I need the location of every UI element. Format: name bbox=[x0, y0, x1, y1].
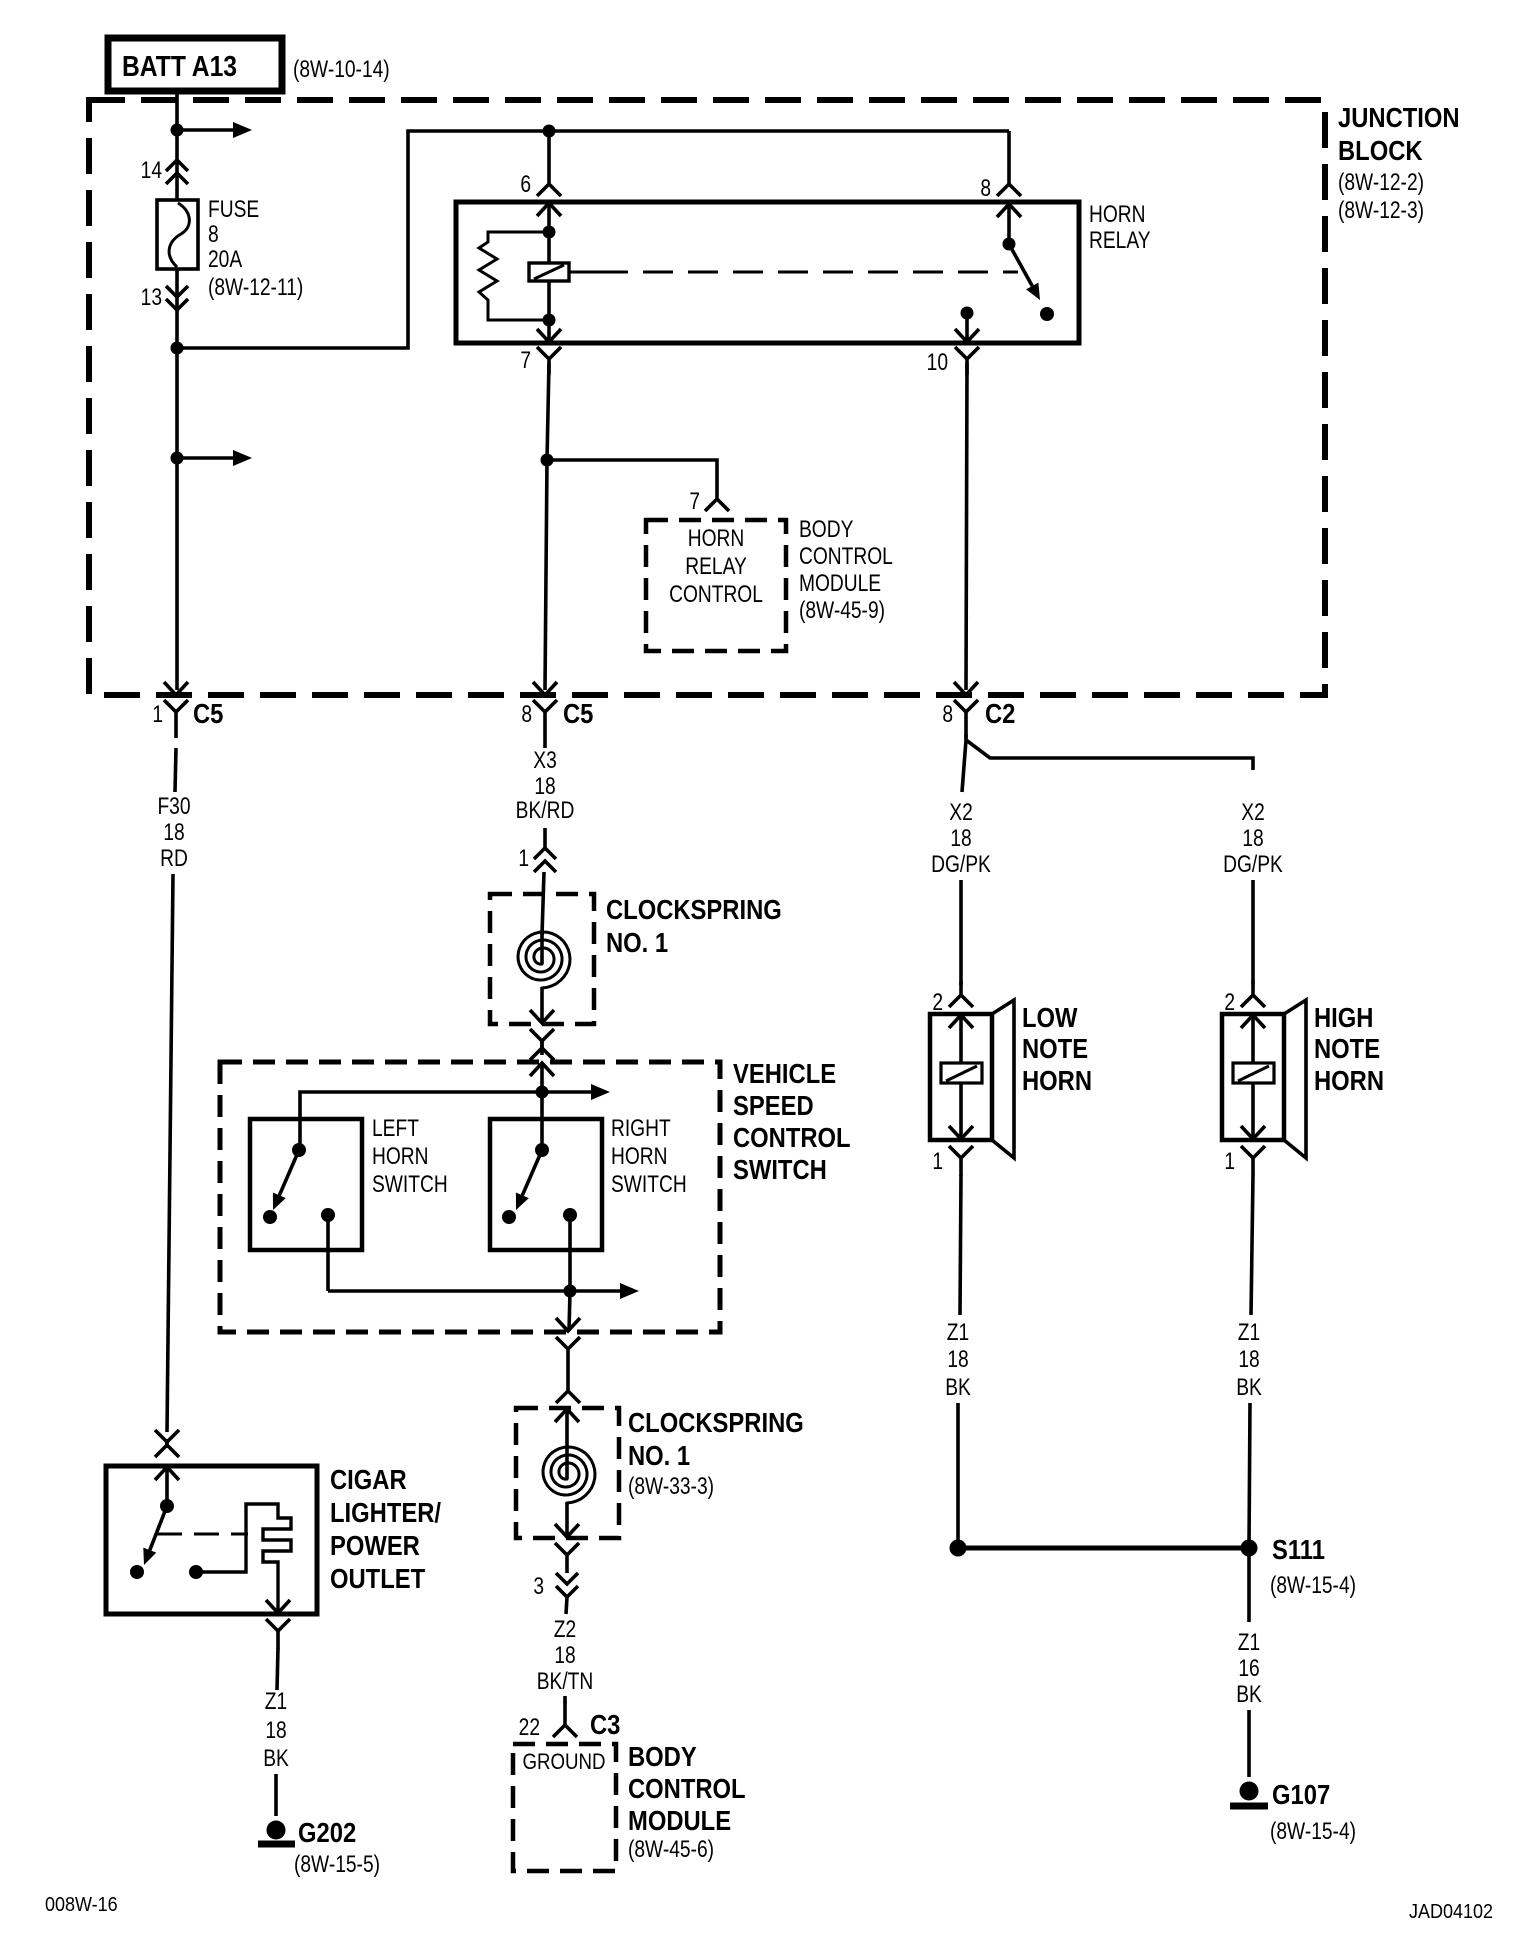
horn relay control dashed box bbox=[646, 520, 786, 651]
high note horn speaker cone bbox=[1284, 1000, 1306, 1158]
right horn switch output contact bbox=[563, 1208, 577, 1222]
wire relay pin 10 to C2 bbox=[966, 363, 967, 690]
wire batt A13 down to fuse bbox=[175, 91, 179, 200]
svg-text:(8W-45-9): (8W-45-9) bbox=[799, 596, 885, 624]
low note horn speaker cone bbox=[992, 1000, 1014, 1158]
wire low horn to pin 2 bbox=[959, 880, 963, 985]
svg-text:(8W-12-2): (8W-12-2) bbox=[1338, 168, 1424, 196]
pin 3 in-line connector bbox=[556, 1573, 578, 1597]
right horn switch box bbox=[490, 1119, 602, 1250]
svg-text:CLOCKSPRING: CLOCKSPRING bbox=[606, 893, 782, 925]
svg-text:X2: X2 bbox=[1241, 798, 1264, 826]
svg-text:VEHICLE: VEHICLE bbox=[733, 1057, 836, 1089]
svg-text:Z1: Z1 bbox=[947, 1318, 969, 1346]
relay switch blade bbox=[1009, 244, 1032, 286]
svg-text:HORN: HORN bbox=[1022, 1064, 1092, 1096]
junction block dashed border bbox=[89, 100, 1325, 695]
svg-text:DG/PK: DG/PK bbox=[931, 850, 991, 878]
battery feed box BATT A13 bbox=[108, 38, 282, 91]
connector C3 pin 22 bbox=[553, 1701, 577, 1737]
cigar internal wire bbox=[165, 1467, 169, 1506]
svg-text:X3: X3 bbox=[533, 746, 556, 774]
wire low horn to splice bbox=[956, 1403, 960, 1548]
svg-text:POWER: POWER bbox=[330, 1529, 420, 1561]
pin 7 bcm connector half bbox=[705, 477, 729, 511]
wire to G202 bbox=[274, 1774, 278, 1816]
svg-text:2: 2 bbox=[932, 988, 943, 1016]
svg-text:16: 16 bbox=[1238, 1654, 1259, 1682]
connector C5 pin 1 arrow bbox=[164, 682, 188, 695]
svg-text:BODY: BODY bbox=[799, 515, 854, 543]
svg-text:MODULE: MODULE bbox=[799, 569, 881, 597]
right horn switch blade bbox=[522, 1150, 542, 1195]
svg-text:BK/RD: BK/RD bbox=[516, 796, 575, 824]
svg-text:JAD04102: JAD04102 bbox=[1409, 1901, 1493, 1923]
svg-text:14: 14 bbox=[141, 156, 162, 184]
fuse F8 body bbox=[157, 200, 198, 269]
clockspring 2 spiral bbox=[543, 1447, 595, 1503]
clockspring 2 entry connector half bbox=[556, 1381, 580, 1403]
low horn exit arrow bbox=[949, 1126, 973, 1139]
cigar heating element bbox=[196, 1504, 291, 1613]
wire right switch output down bbox=[568, 1215, 572, 1291]
relay coil wire upper bbox=[547, 232, 551, 263]
node relay switch common bbox=[1003, 238, 1016, 251]
vsc entry arrow bbox=[530, 1063, 554, 1076]
svg-text:CONTROL: CONTROL bbox=[669, 580, 763, 608]
vsc exit arrow bbox=[556, 1318, 580, 1331]
svg-text:MODULE: MODULE bbox=[628, 1804, 731, 1836]
wire to G107 bbox=[1247, 1710, 1251, 1777]
high horn entry arrow bbox=[1241, 1015, 1265, 1028]
relay actuation dashed link bbox=[568, 271, 598, 274]
svg-text:SWITCH: SWITCH bbox=[611, 1170, 687, 1198]
wire top rail to pin 8 bbox=[1007, 131, 1011, 170]
svg-text:HORN: HORN bbox=[372, 1142, 428, 1170]
svg-text:18: 18 bbox=[554, 1641, 575, 1669]
svg-text:HORN: HORN bbox=[688, 524, 744, 552]
svg-text:BATT A13: BATT A13 bbox=[122, 50, 237, 82]
right horn switch common contact bbox=[535, 1143, 549, 1157]
svg-text:10: 10 bbox=[927, 348, 948, 376]
resistor relay bbox=[479, 232, 549, 320]
node relay coil bottom bbox=[543, 314, 556, 327]
svg-text:1: 1 bbox=[518, 844, 529, 872]
svg-text:JUNCTION: JUNCTION bbox=[1338, 101, 1460, 133]
svg-text:LEFT: LEFT bbox=[372, 1114, 419, 1142]
svg-text:(8W-12-11): (8W-12-11) bbox=[208, 273, 303, 301]
wire vsc exit bbox=[569, 1291, 570, 1331]
svg-text:18: 18 bbox=[950, 824, 971, 852]
svg-text:BK: BK bbox=[1236, 1680, 1262, 1708]
svg-text:(8W-15-4): (8W-15-4) bbox=[1270, 1571, 1356, 1599]
wire into clockspring 1 bbox=[542, 872, 544, 935]
connector C2 pin 8 arrow bbox=[954, 682, 978, 695]
svg-text:18: 18 bbox=[1242, 824, 1263, 852]
cigar lighter entry connector half bbox=[155, 1439, 179, 1457]
wire C2 to low note horn bbox=[964, 734, 968, 740]
low note horn box bbox=[930, 1014, 992, 1140]
svg-text:SPEED: SPEED bbox=[733, 1089, 814, 1121]
cigar actuation dashed link bbox=[157, 1533, 248, 1536]
svg-text:RIGHT: RIGHT bbox=[611, 1114, 671, 1142]
clockspring 2 lower connector half bbox=[555, 1543, 579, 1573]
wire F30 long run to cigar lighter bbox=[167, 874, 173, 1432]
clockspring 2 entry arrow bbox=[555, 1409, 579, 1422]
wire fuse node to relay top rail bbox=[177, 131, 1009, 348]
clockspring 1 wire to center bbox=[540, 930, 544, 964]
clockspring 2 exit wire bbox=[565, 1502, 569, 1537]
svg-text:008W-16: 008W-16 bbox=[45, 1894, 118, 1916]
svg-text:(8W-33-3): (8W-33-3) bbox=[628, 1472, 714, 1500]
clockspring 1 exit arrow bbox=[530, 1010, 554, 1023]
connector C2 pin 8 bbox=[954, 700, 978, 738]
wire high horn down bbox=[1251, 1175, 1253, 1315]
svg-text:NOTE: NOTE bbox=[1022, 1032, 1088, 1064]
cigar switch common contact bbox=[160, 1499, 174, 1513]
wire vsc main down to right switch bbox=[540, 1092, 544, 1150]
vsc exit connector half bbox=[556, 1337, 580, 1381]
svg-text:CLOCKSPRING: CLOCKSPRING bbox=[628, 1406, 804, 1438]
svg-text:FUSE: FUSE bbox=[208, 195, 259, 223]
pin 13 in-line connector bbox=[166, 286, 188, 310]
wire C5-1 down bbox=[175, 748, 176, 792]
cigar switch blade bbox=[150, 1506, 167, 1550]
svg-text:(8W-10-14): (8W-10-14) bbox=[293, 55, 390, 83]
clockspring no.1 dashed box bbox=[490, 894, 594, 1024]
low horn internal wire bbox=[959, 1015, 963, 1139]
body control module dashed box bbox=[513, 1744, 616, 1871]
ground G107 bbox=[1240, 1782, 1259, 1801]
arrow vsc upper branch bbox=[542, 1090, 594, 1094]
cigar lighter box bbox=[106, 1466, 317, 1614]
right horn switch lower contact bbox=[502, 1210, 516, 1224]
svg-text:BK: BK bbox=[945, 1373, 971, 1401]
svg-text:CONTROL: CONTROL bbox=[799, 542, 893, 570]
pin 8 connector half bbox=[997, 170, 1021, 196]
pin 6 connector half bbox=[537, 170, 561, 196]
wire low horn down bbox=[960, 1175, 961, 1315]
relay switch contact bbox=[1040, 307, 1054, 321]
left horn switch common contact bbox=[292, 1143, 306, 1157]
svg-text:7: 7 bbox=[689, 487, 700, 515]
svg-text:(8W-12-3): (8W-12-3) bbox=[1338, 196, 1424, 224]
wire high horn to splice bbox=[1249, 1403, 1250, 1548]
svg-text:OUTLET: OUTLET bbox=[330, 1562, 425, 1594]
svg-text:3: 3 bbox=[533, 1572, 544, 1600]
svg-text:Z1: Z1 bbox=[265, 1687, 287, 1715]
svg-text:Z2: Z2 bbox=[554, 1615, 576, 1643]
wire left switch output down bbox=[326, 1215, 330, 1291]
arrow branch right lower bbox=[177, 456, 236, 460]
svg-text:BK: BK bbox=[1236, 1373, 1262, 1401]
wire low horn upper bbox=[962, 740, 966, 792]
cigar pin connector half bbox=[266, 1619, 290, 1649]
svg-text:2: 2 bbox=[1224, 988, 1235, 1016]
svg-text:X2: X2 bbox=[949, 798, 972, 826]
high horn coil bbox=[1233, 1063, 1274, 1083]
svg-text:LOW: LOW bbox=[1022, 1001, 1078, 1033]
high horn pin 1 connector bbox=[1241, 1146, 1265, 1176]
svg-text:8: 8 bbox=[980, 174, 991, 202]
svg-text:1: 1 bbox=[1224, 1147, 1235, 1175]
wire pin 3 down bbox=[566, 1597, 567, 1614]
clockspring 2 exit arrow bbox=[555, 1524, 579, 1537]
relay coil K1 bbox=[529, 263, 569, 281]
svg-text:20A: 20A bbox=[208, 245, 243, 273]
svg-text:BODY: BODY bbox=[628, 1740, 697, 1772]
svg-text:F30: F30 bbox=[157, 792, 190, 820]
svg-text:18: 18 bbox=[265, 1716, 286, 1744]
node fuse output bbox=[171, 342, 184, 355]
low horn pin 2 connector half bbox=[949, 981, 973, 1007]
svg-text:DG/PK: DG/PK bbox=[1223, 850, 1283, 878]
svg-text:GROUND: GROUND bbox=[522, 1751, 605, 1775]
wire S111 down bbox=[1247, 1548, 1251, 1622]
node vsc lower branch bbox=[564, 1285, 577, 1298]
cigar element contact bbox=[189, 1565, 203, 1579]
left horn switch box bbox=[250, 1119, 362, 1250]
svg-text:(8W-45-6): (8W-45-6) bbox=[628, 1835, 714, 1863]
wire pin 8 to switch bbox=[1007, 204, 1011, 244]
svg-text:18: 18 bbox=[1238, 1345, 1259, 1373]
svg-text:8: 8 bbox=[521, 700, 532, 728]
node relay pin 10 contact bbox=[961, 307, 974, 320]
cigar entry arrow bbox=[155, 1467, 179, 1480]
left horn switch output contact bbox=[321, 1208, 335, 1222]
svg-text:SWITCH: SWITCH bbox=[372, 1170, 448, 1198]
wire C5-8 down bbox=[543, 738, 547, 748]
svg-text:13: 13 bbox=[141, 283, 162, 311]
svg-text:Z1: Z1 bbox=[1238, 1318, 1260, 1346]
wire top rail to pin 6 bbox=[547, 131, 551, 170]
left horn switch blade bbox=[279, 1150, 299, 1195]
pin 14 in-line connector bbox=[166, 160, 188, 184]
svg-text:8: 8 bbox=[942, 700, 953, 728]
wire pin 7 down to C5 bbox=[545, 363, 549, 690]
svg-text:8: 8 bbox=[208, 220, 219, 248]
svg-text:BLOCK: BLOCK bbox=[1338, 134, 1423, 166]
wire vsc lower branch bbox=[328, 1289, 570, 1293]
node batt branch bbox=[171, 124, 184, 137]
high horn exit arrow bbox=[1241, 1126, 1265, 1139]
wire upper branch to left switch bbox=[300, 1092, 542, 1150]
low horn pin 1 connector bbox=[949, 1146, 973, 1176]
svg-text:7: 7 bbox=[520, 346, 531, 374]
clockspring 1 spiral bbox=[518, 932, 570, 988]
wire to C3 bbox=[563, 1696, 567, 1703]
low horn entry arrow bbox=[949, 1015, 973, 1028]
wire vsc entry to branch node bbox=[540, 1063, 544, 1092]
clockspring 1 exit wire bbox=[540, 987, 544, 1023]
high horn internal wire bbox=[1251, 1015, 1255, 1139]
svg-text:C3: C3 bbox=[590, 1708, 620, 1740]
clockspring 2 wire to center bbox=[565, 1409, 569, 1479]
node relay coil top bbox=[543, 226, 556, 239]
svg-text:22: 22 bbox=[519, 1713, 540, 1741]
svg-text:1: 1 bbox=[932, 1147, 943, 1175]
wire to clockspring connector bbox=[543, 828, 547, 848]
wire high horn to pin 2 bbox=[1251, 880, 1255, 985]
svg-text:NOTE: NOTE bbox=[1314, 1032, 1380, 1064]
svg-text:CONTROL: CONTROL bbox=[733, 1121, 851, 1153]
cigar exit arrow bbox=[266, 1600, 290, 1613]
clockspring 1 lower connector half bbox=[530, 1029, 554, 1055]
svg-text:C5: C5 bbox=[563, 697, 593, 729]
svg-text:18: 18 bbox=[947, 1345, 968, 1373]
svg-text:HORN: HORN bbox=[1089, 200, 1145, 228]
pin 10 connector half bbox=[955, 347, 979, 375]
svg-text:RD: RD bbox=[160, 844, 188, 872]
connector C5 pin 8 arrow bbox=[533, 682, 557, 695]
left horn switch lower contact bbox=[263, 1210, 277, 1224]
connector C5 pin 1 bbox=[164, 700, 188, 738]
svg-text:HIGH: HIGH bbox=[1314, 1001, 1373, 1033]
pin 7 connector half bbox=[537, 347, 561, 375]
low horn coil bbox=[941, 1063, 982, 1083]
wire fuse to C5 bbox=[175, 269, 179, 690]
svg-text:C2: C2 bbox=[985, 697, 1015, 729]
wire branch to horn relay control bbox=[547, 460, 717, 477]
clockspring no.1 (8W-33-3) dashed box bbox=[516, 1408, 619, 1538]
svg-text:C5: C5 bbox=[193, 697, 223, 729]
vehicle speed control switch dashed box bbox=[220, 1062, 720, 1332]
high note horn box bbox=[1222, 1014, 1284, 1140]
connector C5 pin 8 bbox=[533, 700, 557, 738]
wire pin 6 to coil node bbox=[547, 203, 551, 232]
svg-text:SWITCH: SWITCH bbox=[733, 1153, 827, 1185]
wire cigar down bbox=[277, 1648, 278, 1690]
wire C2 split diagonal bbox=[966, 740, 1253, 770]
pin 6 entry arrow bbox=[537, 203, 561, 216]
arrow branch right at node bbox=[177, 128, 236, 132]
relay coil wire lower bbox=[547, 281, 551, 320]
svg-text:NO. 1: NO. 1 bbox=[628, 1439, 690, 1471]
vsc entry connector half bbox=[530, 1040, 554, 1060]
cigar switch lower contact bbox=[130, 1565, 144, 1579]
svg-text:1: 1 bbox=[152, 700, 163, 728]
pin 1 clockspring in-line connector bbox=[534, 848, 556, 872]
svg-text:Z1: Z1 bbox=[1238, 1628, 1260, 1656]
svg-text:18: 18 bbox=[163, 818, 184, 846]
svg-text:NO. 1: NO. 1 bbox=[606, 926, 668, 958]
svg-text:HORN: HORN bbox=[611, 1142, 667, 1170]
node lower branch bbox=[171, 452, 184, 465]
horn relay box bbox=[456, 202, 1079, 343]
pin 10 exit arrow bbox=[965, 313, 969, 342]
svg-text:G107: G107 bbox=[1272, 1778, 1330, 1810]
svg-text:CIGAR: CIGAR bbox=[330, 1463, 407, 1495]
high horn pin 2 connector half bbox=[1241, 981, 1265, 1007]
pin 7 exit arrow bbox=[547, 320, 551, 342]
node horn relay control branch bbox=[541, 454, 554, 467]
splice S111 bus bbox=[958, 1546, 1249, 1551]
svg-text:6: 6 bbox=[520, 170, 531, 198]
node top rail to relay pin 6 bbox=[543, 125, 556, 138]
svg-text:(8W-15-5): (8W-15-5) bbox=[294, 1850, 380, 1878]
svg-text:RELAY: RELAY bbox=[1089, 226, 1151, 254]
splice node S111 bbox=[1241, 1540, 1258, 1557]
splice node low horn bbox=[950, 1540, 967, 1557]
svg-text:S111: S111 bbox=[1272, 1533, 1325, 1565]
svg-text:(8W-15-4): (8W-15-4) bbox=[1270, 1817, 1356, 1845]
svg-text:HORN: HORN bbox=[1314, 1064, 1384, 1096]
svg-text:G202: G202 bbox=[298, 1816, 356, 1848]
ground G202 bbox=[267, 1821, 286, 1840]
svg-text:BK/TN: BK/TN bbox=[537, 1667, 594, 1695]
svg-text:BK: BK bbox=[263, 1744, 289, 1772]
svg-text:LIGHTER/: LIGHTER/ bbox=[330, 1496, 441, 1528]
arrow vsc lower branch bbox=[570, 1289, 623, 1293]
svg-text:CONTROL: CONTROL bbox=[628, 1772, 746, 1804]
svg-text:RELAY: RELAY bbox=[685, 552, 747, 580]
pin 8 entry arrow bbox=[997, 204, 1021, 217]
cigar lighter upper connector half bbox=[155, 1430, 179, 1448]
node vsc upper branch bbox=[536, 1086, 549, 1099]
